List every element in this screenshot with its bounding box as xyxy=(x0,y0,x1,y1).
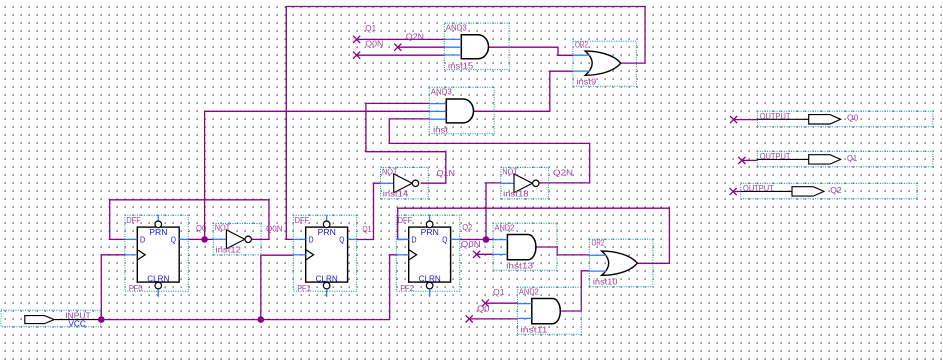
node Q0 (inst11 input) xyxy=(466,315,473,322)
svg-text:OR2: OR2 xyxy=(575,40,588,50)
svg-text:NOT: NOT xyxy=(215,222,231,232)
svg-text:Q1: Q1 xyxy=(493,287,505,297)
gate inst9 (OR2) xyxy=(573,40,637,87)
inverter inst12 (NOT) xyxy=(213,222,261,255)
svg-text:CLRN: CLRN xyxy=(147,274,169,284)
node Q0N (inst13 input) xyxy=(473,251,480,258)
connector OUTPUT Q1 xyxy=(757,151,932,167)
connector OUTPUT Q0 xyxy=(757,111,932,127)
wire inst14 output (Q1N) to inst AND3 input 1 xyxy=(366,103,446,183)
svg-text:inst11: inst11 xyxy=(521,325,548,335)
svg-text:FF0: FF0 xyxy=(129,283,143,293)
node Q1 (output) xyxy=(738,157,745,164)
flip-flop FF1 (DFF) xyxy=(293,215,356,297)
node Q1 (inst15 input) xyxy=(353,36,360,43)
svg-text:Q0: Q0 xyxy=(477,303,490,313)
svg-text:inst15: inst15 xyxy=(448,60,474,70)
junction node Q0 xyxy=(201,236,208,243)
svg-text:Q: Q xyxy=(171,234,176,244)
svg-text:Q1: Q1 xyxy=(362,224,371,234)
svg-text:Q0N: Q0N xyxy=(266,224,283,234)
svg-text:OUTPUT: OUTPUT xyxy=(743,183,774,193)
junction INPUT wire at FF0 clock branch xyxy=(98,316,105,323)
node Q1 (inst11 input) xyxy=(482,300,489,307)
svg-text:FF1: FF1 xyxy=(297,283,311,293)
inverter inst14 (NOT) xyxy=(381,166,429,199)
svg-text:D: D xyxy=(411,234,416,244)
wire INPUT branch to FF0 clock xyxy=(101,255,125,320)
connector INPUT (VCC) xyxy=(1,310,101,328)
svg-text:inst10: inst10 xyxy=(593,277,618,287)
svg-text:D: D xyxy=(308,234,313,244)
svg-text:DFF: DFF xyxy=(295,215,310,225)
svg-text:PRN: PRN xyxy=(421,227,439,237)
svg-text:DFF: DFF xyxy=(398,215,413,225)
svg-text:NOT: NOT xyxy=(382,166,398,176)
svg-text:inst9: inst9 xyxy=(576,76,596,86)
wire inst15 output to inst9 input 1 xyxy=(489,47,573,55)
svg-text:CLRN: CLRN xyxy=(316,274,338,284)
svg-text:inst12: inst12 xyxy=(216,245,242,255)
wire FF1 Q to inst14 input xyxy=(357,183,381,239)
svg-text:Q1: Q1 xyxy=(847,153,857,163)
wire net Q0 to OUTPUT pin Q0 xyxy=(734,119,758,121)
wire net Q0 to inst11 input 2 xyxy=(469,318,517,320)
wire inst9 output to FF1 D (top loop) xyxy=(286,7,645,240)
svg-text:Q2N: Q2N xyxy=(553,167,573,177)
junction node Q2 xyxy=(483,236,490,243)
node Q2 (output) xyxy=(730,188,737,195)
flip-flop FF0 (DFF) xyxy=(125,215,188,297)
svg-text:Q2: Q2 xyxy=(462,222,472,232)
svg-text:PRN: PRN xyxy=(149,227,167,237)
wire net Q2 to OUTPUT pin Q2 xyxy=(733,191,741,193)
wire inst18 output (Q2N) to inst AND3 input 3 xyxy=(389,119,589,183)
connector OUTPUT Q2 xyxy=(741,183,917,199)
svg-text:AND2: AND2 xyxy=(495,222,515,232)
wire net Q0N to inst15 input 3 xyxy=(357,54,445,56)
wire inst11 output to inst10 input 2 xyxy=(560,271,590,311)
svg-text:inst13: inst13 xyxy=(506,261,533,271)
wire net Q0N to inst13 input 2 xyxy=(477,253,494,255)
node Q2N (inst15 input) xyxy=(394,44,401,51)
svg-text:CLRN: CLRN xyxy=(419,274,441,284)
wire INPUT to FF2 clock xyxy=(99,255,397,320)
svg-text:D: D xyxy=(140,234,145,244)
svg-text:inst14: inst14 xyxy=(383,189,409,199)
svg-text:Q2: Q2 xyxy=(830,185,842,195)
wire INPUT branch to FF1 clock xyxy=(261,255,294,319)
svg-text:PRN: PRN xyxy=(318,227,336,237)
svg-text:Q0N: Q0N xyxy=(461,239,481,249)
gate inst15 (AND3) xyxy=(444,22,509,70)
svg-text:OUTPUT: OUTPUT xyxy=(760,111,791,121)
svg-text:OUTPUT: OUTPUT xyxy=(760,151,791,161)
wire inst AND3 output to inst9 input 2 xyxy=(473,71,573,111)
gate inst11 (AND2) xyxy=(518,286,582,334)
svg-text:AND3: AND3 xyxy=(431,87,452,97)
gate inst10 (OR2) xyxy=(589,238,653,287)
wire net Q1 to OUTPUT pin Q1 xyxy=(742,159,758,161)
svg-text:OR2: OR2 xyxy=(592,238,605,248)
gate inst13 (AND2) xyxy=(493,222,557,270)
svg-text:AND3: AND3 xyxy=(446,22,467,32)
wire net Q1 to inst15 input 1 xyxy=(357,38,445,40)
svg-text:DFF: DFF xyxy=(126,215,141,225)
svg-text:Q2N: Q2N xyxy=(406,31,424,41)
svg-text:inst: inst xyxy=(433,125,449,135)
svg-text:Q1N: Q1N xyxy=(437,168,455,178)
junction INPUT wire at FF1 clock branch xyxy=(258,316,265,323)
svg-text:Q0: Q0 xyxy=(847,113,859,123)
wire FF2 Q to inst13 input 1 xyxy=(460,239,493,241)
wire FF0 Q to inst12 input xyxy=(188,238,213,240)
inverter inst18 (NOT) xyxy=(501,166,549,199)
svg-text:AND2: AND2 xyxy=(519,286,539,296)
svg-text:Q0N: Q0N xyxy=(365,39,383,49)
wire node Q2 to inst18 input xyxy=(486,183,501,240)
svg-text:NOT: NOT xyxy=(502,166,518,176)
node Q0N (inst15 input) xyxy=(353,52,360,59)
wire inst10 output to FF2 D (feedback) xyxy=(398,208,670,263)
flip-flop FF2 (DFF) xyxy=(396,215,459,297)
svg-text:Q: Q xyxy=(442,234,447,244)
svg-text:Q: Q xyxy=(339,234,344,244)
wire net Q1 to inst11 input 1 xyxy=(485,302,517,304)
svg-text:inst18: inst18 xyxy=(503,189,529,199)
wire net Q2N to inst15 input 2 xyxy=(398,46,445,48)
svg-text:FF2: FF2 xyxy=(400,283,414,293)
wire node Q0 to inst AND3 input 2 xyxy=(205,111,430,239)
svg-text:Q1: Q1 xyxy=(365,23,376,33)
svg-text:Q0: Q0 xyxy=(196,223,207,233)
svg-text:VCC: VCC xyxy=(68,319,86,329)
wire inst12 output (Q0N) to FF0 D xyxy=(110,200,269,240)
node Q0 (output) xyxy=(730,116,737,123)
wire inst13 output to inst10 input 1 xyxy=(535,247,589,255)
gate inst (AND3) xyxy=(429,87,494,135)
